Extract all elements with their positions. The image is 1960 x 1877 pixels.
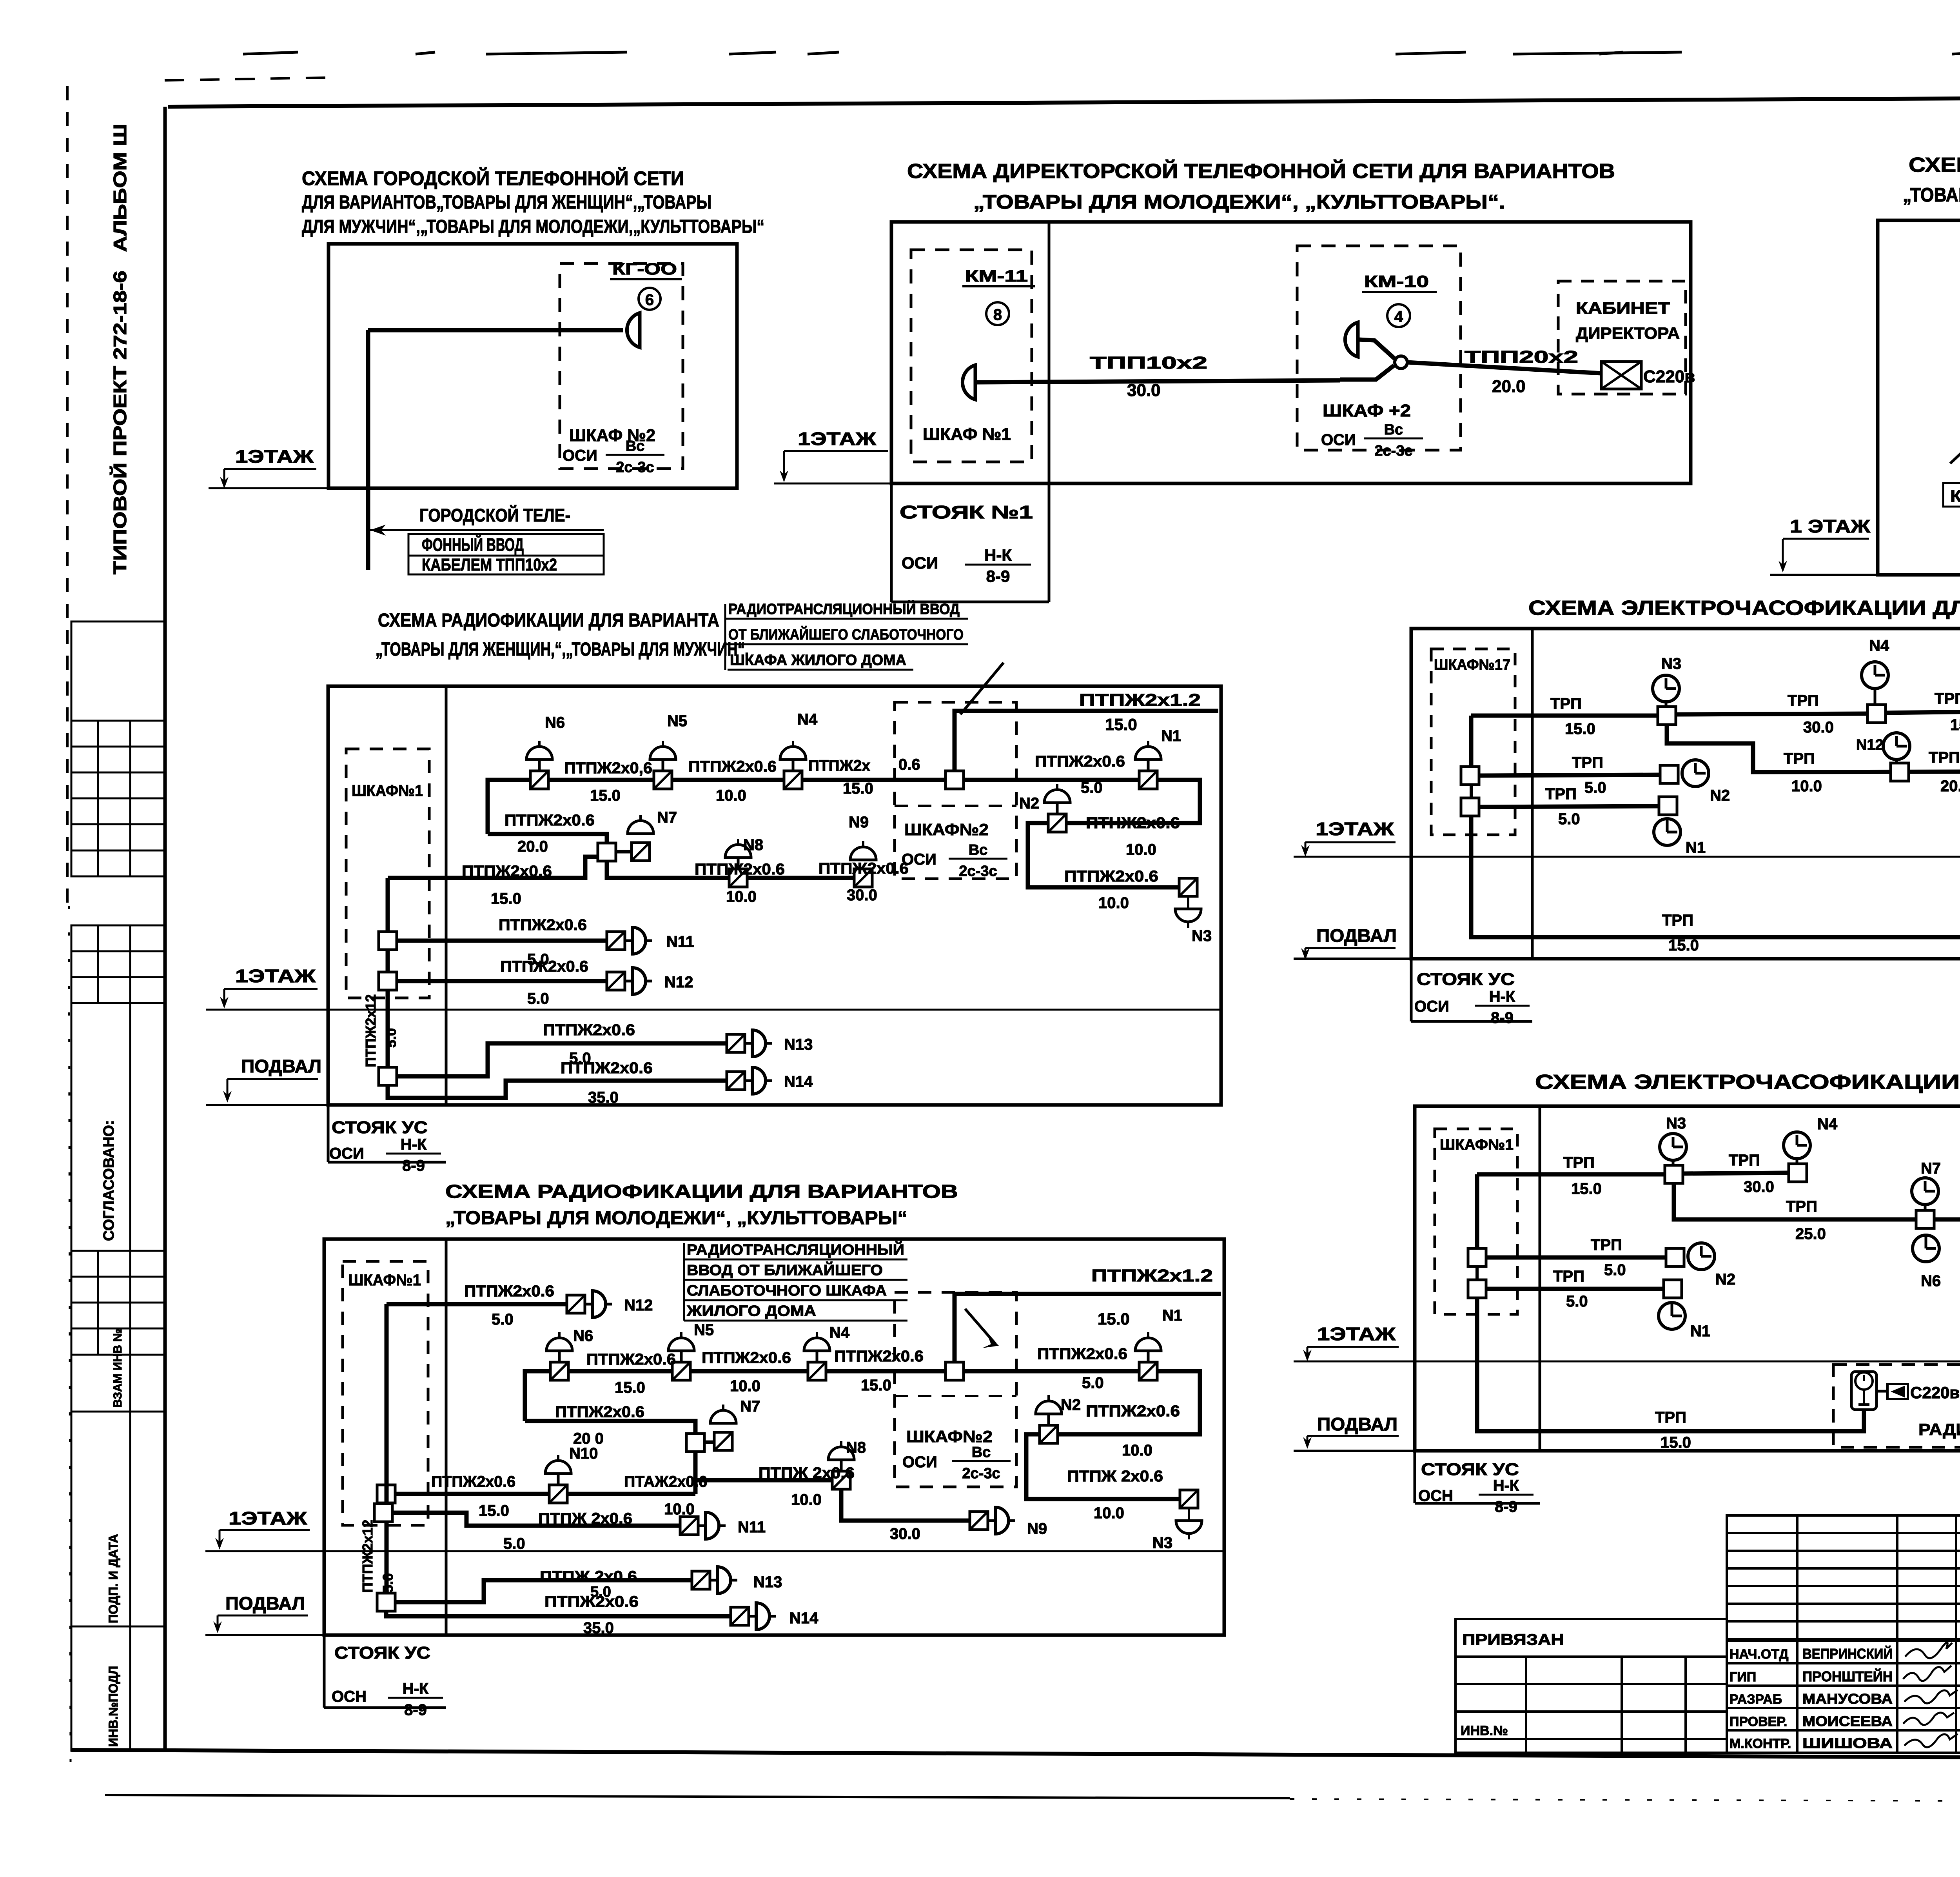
section: electric clock network (youth goods) xyxy=(1294,597,1960,1027)
svg-text:5.0: 5.0 xyxy=(380,1573,396,1593)
svg-text:ТРП: ТРП xyxy=(1553,1268,1584,1285)
attenuator N7 xyxy=(632,843,650,861)
left margin stamp table xyxy=(71,621,165,1355)
svg-text:ОСИ: ОСИ xyxy=(902,851,936,868)
wire E N4-N5 xyxy=(1886,711,1960,713)
riser column divider D xyxy=(445,686,448,1105)
svg-text:ПТПЖ 2х0.6: ПТПЖ 2х0.6 xyxy=(1067,1468,1163,1485)
svg-text:N2: N2 xyxy=(1710,787,1730,804)
axis fraction xyxy=(952,1444,1011,1482)
svg-text:N1: N1 xyxy=(1690,1323,1710,1340)
riser column divider E xyxy=(1531,629,1534,959)
riser column divider G xyxy=(1539,1106,1541,1451)
wire bus lower D xyxy=(607,861,863,878)
paper left edge xyxy=(66,86,69,906)
level mark 1ЭТАЖ xyxy=(1301,819,1396,857)
svg-text:КЕ РАДИОТОВАРОВ: КЕ РАДИОТОВАРОВ xyxy=(1950,487,1960,506)
junction box E a xyxy=(1461,767,1479,785)
svg-text:Н-К: Н-К xyxy=(1493,1477,1519,1494)
svg-text:СХЕМА РАДИОФИКАЦИИ ДЛЯ ВАРИАНТ: СХЕМА РАДИОФИКАЦИИ ДЛЯ ВАРИАНТОВ xyxy=(445,1181,958,1202)
wire N12 D xyxy=(397,979,607,983)
svg-text:N6: N6 xyxy=(545,714,565,731)
svg-text:20 0: 20 0 xyxy=(573,1430,604,1447)
wire G riser top xyxy=(1475,1174,1479,1248)
svg-text:15.0: 15.0 xyxy=(1668,937,1699,954)
svg-text:15.0: 15.0 xyxy=(861,1377,891,1394)
svg-text:10.0: 10.0 xyxy=(664,1501,695,1518)
speaker N13 F xyxy=(692,1567,737,1594)
svg-text:ПТПЖ2х1.2: ПТПЖ2х1.2 xyxy=(1091,1266,1213,1285)
wire main bus F upper xyxy=(525,1371,1200,1434)
svg-text:ШКАФ№2: ШКАФ№2 xyxy=(906,1427,993,1446)
svg-text:2с-3с: 2с-3с xyxy=(959,863,997,879)
wire ПТПЖ2х1.2 riser F xyxy=(955,1294,1221,1362)
svg-text:8-9: 8-9 xyxy=(986,567,1010,585)
svg-text:ЖИЛОГО ДОМА: ЖИЛОГО ДОМА xyxy=(686,1303,816,1319)
svg-text:ПТПЖ2х: ПТПЖ2х xyxy=(808,757,870,774)
wire junction drop F xyxy=(693,1452,698,1494)
speaker N12 F xyxy=(567,1291,612,1317)
speaker xyxy=(628,815,653,834)
svg-text:ШИШОВА: ШИШОВА xyxy=(1802,1735,1893,1751)
clock N4 E xyxy=(1862,662,1888,705)
svg-text:РАДИОУЗЕЛ: РАДИОУЗЕЛ xyxy=(1918,1420,1960,1439)
svg-text:С220в: С220в xyxy=(1910,1383,1960,1402)
svg-text:1ЭТАЖ: 1ЭТАЖ xyxy=(235,966,316,986)
svg-text:СТОЯК УС: СТОЯК УС xyxy=(332,1118,428,1137)
svg-text:КМ-11: КМ-11 xyxy=(965,267,1028,285)
svg-text:N2: N2 xyxy=(1061,1396,1081,1414)
power symbol G xyxy=(1877,1384,1908,1399)
wire ПТПЖ2х1.2 riser D xyxy=(955,711,1218,771)
junction box N4 E xyxy=(1867,705,1886,723)
svg-text:N2: N2 xyxy=(1715,1271,1735,1288)
cabinet dashed box E xyxy=(1431,649,1515,835)
floor line G этаж xyxy=(1294,1361,1960,1363)
svg-text:15.0: 15.0 xyxy=(615,1379,645,1396)
svg-text:N1: N1 xyxy=(1162,1307,1182,1324)
junction box N1 G xyxy=(1664,1280,1682,1298)
clock N4 G xyxy=(1784,1132,1810,1164)
svg-text:5.0: 5.0 xyxy=(1082,1374,1104,1392)
cabinet ШКАФ №1 dashed box F xyxy=(343,1261,428,1525)
speaker N1 F xyxy=(1135,1332,1161,1380)
riser column divider B xyxy=(1048,222,1051,602)
wire junction to N7 xyxy=(616,850,632,854)
svg-text:ПТПЖ2х0.6: ПТПЖ2х0.6 xyxy=(464,1283,554,1300)
svg-text:СХЕМА ГОРОДСКОЙ ТЕЛЕФОННОЙ СЕТ: СХЕМА ГОРОДСКОЙ ТЕЛЕФОННОЙ СЕТИ xyxy=(302,167,684,189)
svg-text:ПТПЖ2х0.6: ПТПЖ2х0.6 xyxy=(688,758,777,775)
svg-text:4: 4 xyxy=(1394,308,1403,325)
svg-text:15.0: 15.0 xyxy=(1105,715,1137,734)
wire ТПП10х2 xyxy=(975,380,1340,382)
svg-text:Вс: Вс xyxy=(1384,422,1403,438)
floor line A xyxy=(209,487,330,489)
svg-text:ОСИ: ОСИ xyxy=(902,1454,937,1471)
svg-text:ПТПЖ2х0.6: ПТПЖ2х0.6 xyxy=(431,1473,515,1490)
junction box N11 feed xyxy=(379,932,397,950)
section: director telephone network xyxy=(774,160,1695,602)
wire G basement feed xyxy=(1477,1298,1864,1431)
svg-text:20.0: 20.0 xyxy=(1492,377,1526,396)
svg-text:ШКАФ №1: ШКАФ №1 xyxy=(923,425,1011,444)
bottom trim line xyxy=(105,1795,1290,1798)
junction box F2 xyxy=(946,1362,964,1380)
svg-text:КГ-ОО: КГ-ОО xyxy=(612,260,677,278)
svg-text:ШКАФ +2: ШКАФ +2 xyxy=(1323,401,1411,420)
junction box N3 E xyxy=(1658,707,1676,725)
clock N7 G xyxy=(1912,1178,1938,1210)
director office dashed box xyxy=(1558,281,1686,394)
svg-text:ФОННЫЙ ВВОД: ФОННЫЙ ВВОД xyxy=(422,534,524,555)
svg-text:N7: N7 xyxy=(1921,1160,1941,1177)
axis fraction xyxy=(965,546,1031,585)
svg-text:15.0: 15.0 xyxy=(491,890,521,907)
circled 4 xyxy=(1387,304,1410,327)
junction box F1 xyxy=(686,1434,704,1452)
svg-text:ВЕПРИНСКИЙ: ВЕПРИНСКИЙ xyxy=(1802,1645,1893,1662)
svg-text:N14: N14 xyxy=(784,1073,813,1090)
level mark 1ЭТАЖ xyxy=(220,966,318,1008)
junction box N12 E xyxy=(1891,763,1909,781)
speaker N9 F xyxy=(970,1507,1015,1534)
clock N3 E xyxy=(1653,675,1679,707)
svg-text:ОСИ: ОСИ xyxy=(902,554,938,572)
svg-text:N12: N12 xyxy=(624,1297,653,1314)
room box B xyxy=(891,222,1691,483)
wire E N2 xyxy=(1479,775,1660,776)
speaker N5 xyxy=(650,741,676,789)
speaker xyxy=(710,1405,736,1423)
wire 20m loop D xyxy=(488,834,607,844)
wire junction to N7 F xyxy=(704,1441,714,1444)
svg-text:ДИРЕКТОРА: ДИРЕКТОРА xyxy=(1576,324,1680,342)
svg-text:25.0: 25.0 xyxy=(1795,1225,1826,1243)
wire bus from cabinet D xyxy=(388,857,600,878)
svg-text:ПОДВАЛ: ПОДВАЛ xyxy=(225,1593,305,1614)
frame bottom border xyxy=(71,1750,1960,1759)
room box E xyxy=(1411,629,1960,959)
riser column divider F xyxy=(445,1239,448,1635)
axis fraction xyxy=(606,438,664,476)
workshop pointer line xyxy=(1950,423,1960,463)
svg-text:N8: N8 xyxy=(743,836,763,854)
pointer to riser D xyxy=(960,663,1004,714)
svg-text:„ТОВАРЫ ДЛЯ МОЛОДЕЖИ“, „КУЛЬТТ: „ТОВАРЫ ДЛЯ МОЛОДЕЖИ“, „КУЛЬТТОВАРЫ“. xyxy=(973,191,1505,213)
wire E riser mid xyxy=(1470,785,1473,798)
floor line E подвал xyxy=(1294,958,1413,960)
wire E riser top xyxy=(1469,716,1474,767)
svg-text:30.0: 30.0 xyxy=(1127,381,1161,400)
svg-text:ПТПЖ2х0.6: ПТПЖ2х0.6 xyxy=(586,1351,676,1368)
svg-text:ПТПЖ2х0.6: ПТПЖ2х0.6 xyxy=(499,916,587,934)
svg-text:15.0: 15.0 xyxy=(590,787,621,804)
junction box N2 G xyxy=(1666,1248,1684,1266)
svg-text:ТРП: ТРП xyxy=(1786,1198,1817,1215)
svg-text:КАБЕЛЕМ ТПП10х2: КАБЕЛЕМ ТПП10х2 xyxy=(422,555,557,574)
svg-text:1ЭТАЖ: 1ЭТАЖ xyxy=(798,429,877,449)
clock N1 G xyxy=(1659,1303,1685,1329)
svg-text:6: 6 xyxy=(645,291,654,309)
svg-text:N14: N14 xyxy=(789,1610,818,1627)
wire 20m loop F xyxy=(525,1421,695,1434)
svg-text:РАДИОТРАНСЛЯЦИОННЫЙ ВВОД: РАДИОТРАНСЛЯЦИОННЫЙ ВВОД xyxy=(728,600,960,618)
svg-text:СХЕМА ЭЛЕКТРОЧАСОФИКАЦИИ ДЛЯ В: СХЕМА ЭЛЕКТРОЧАСОФИКАЦИИ ДЛЯ ВАРИАНТА „К… xyxy=(1535,1071,1960,1094)
clock N3 G xyxy=(1660,1134,1686,1165)
wire N8-N9 F xyxy=(841,1489,970,1521)
wire main bus D upper xyxy=(488,780,1200,834)
svg-text:10.0: 10.0 xyxy=(716,787,746,804)
svg-text:15.0: 15.0 xyxy=(843,780,873,797)
frame top border xyxy=(168,96,1960,107)
svg-text:ОСН: ОСН xyxy=(332,1688,367,1705)
svg-text:15.0: 15.0 xyxy=(1098,1310,1130,1328)
junction box G b xyxy=(1468,1280,1486,1298)
svg-text:1ЭТАЖ: 1ЭТАЖ xyxy=(1316,819,1394,839)
clock N12 E xyxy=(1883,733,1910,763)
svg-text:8-9: 8-9 xyxy=(404,1701,427,1719)
speaker N10 F xyxy=(545,1455,571,1503)
speaker N4 xyxy=(780,741,806,789)
cabinet КМ-10 dashed box xyxy=(1297,246,1461,450)
svg-text:ПРИВЯЗАН: ПРИВЯЗАН xyxy=(1462,1631,1564,1648)
svg-text:5.0: 5.0 xyxy=(1584,779,1606,796)
junction box N4 G xyxy=(1789,1164,1807,1182)
svg-text:ТРП: ТРП xyxy=(1784,750,1815,767)
svg-text:35.0: 35.0 xyxy=(583,1619,614,1637)
svg-text:СОГЛАСОВАНО:: СОГЛАСОВАНО: xyxy=(101,1120,117,1241)
level mark ПОДВАЛ xyxy=(213,1593,308,1633)
svg-text:30.0: 30.0 xyxy=(1744,1178,1774,1196)
svg-text:N4: N4 xyxy=(797,711,818,728)
svg-text:ПТПЖ 2х0.6: ПТПЖ 2х0.6 xyxy=(540,1568,637,1585)
svg-text:N3: N3 xyxy=(1661,655,1681,672)
title block xyxy=(1455,1515,1960,1806)
svg-text:РАЗРАБ: РАЗРАБ xyxy=(1730,1692,1782,1707)
svg-text:ПРОНШТЕЙН: ПРОНШТЕЙН xyxy=(1802,1668,1893,1684)
room box A xyxy=(328,244,737,488)
wire N14 D xyxy=(388,1081,727,1098)
svg-text:N4: N4 xyxy=(1817,1116,1838,1133)
svg-text:ТРП: ТРП xyxy=(1788,692,1819,709)
level mark 1ЭТАЖ xyxy=(215,1508,310,1550)
speaker N4 F xyxy=(804,1332,830,1380)
svg-text:N12: N12 xyxy=(1856,737,1884,753)
telephone КМ-11 xyxy=(962,365,975,400)
axis fraction xyxy=(1364,422,1423,459)
svg-text:N9: N9 xyxy=(1027,1520,1047,1537)
svg-text:5.0: 5.0 xyxy=(1081,779,1103,796)
svg-text:НАЧ.ОТД: НАЧ.ОТД xyxy=(1730,1647,1788,1662)
svg-text:Вс: Вс xyxy=(626,438,645,454)
svg-text:СХЕМА ДИРЕКТОРСКОЙ ТЕЛЕФОННОЙ: СХЕМА ДИРЕКТОРСКОЙ ТЕЛЕФОННОЙ СЕТИ ДЛЯ В… xyxy=(907,160,1615,183)
svg-text:1 ЭТАЖ: 1 ЭТАЖ xyxy=(1790,516,1870,536)
master clock device G xyxy=(1851,1372,1877,1410)
wire N14 F xyxy=(386,1611,731,1616)
clock N6 G xyxy=(1913,1235,1939,1262)
svg-text:N8: N8 xyxy=(846,1439,866,1456)
svg-text:N3: N3 xyxy=(1152,1534,1172,1552)
speaker N14 xyxy=(727,1067,772,1094)
svg-text:10.0: 10.0 xyxy=(1094,1505,1124,1522)
svg-text:ПОДП. И ДАТА: ПОДП. И ДАТА xyxy=(106,1534,120,1623)
wire G N3-N4 xyxy=(1683,1173,1789,1174)
svg-text:5.0: 5.0 xyxy=(503,1535,525,1552)
speaker N2 F xyxy=(1036,1395,1062,1443)
svg-text:СХЕМА ЭЛЕКТРОЧАСОФИКАЦИИ ДЛЯ В: СХЕМА ЭЛЕКТРОЧАСОФИКАЦИИ ДЛЯ ВАРИАНТА „Т… xyxy=(1528,597,1960,620)
paper top edge xyxy=(243,52,298,54)
привязан table xyxy=(1455,1619,1727,1753)
svg-text:10.0: 10.0 xyxy=(730,1377,760,1395)
svg-text:10.0: 10.0 xyxy=(1791,778,1822,795)
wire to N8 F xyxy=(695,1478,832,1483)
section: electric clock network (cult goods) xyxy=(1294,1071,1960,1515)
cabinet КМ-11 dashed box xyxy=(911,250,1032,462)
wire bus to cabinet F xyxy=(395,1492,695,1496)
speaker N8 F xyxy=(828,1441,854,1489)
svg-text:10.0: 10.0 xyxy=(791,1491,822,1508)
svg-text:„ТОВАРЫ ДЛЯ МОЛОДЕЖИ“, „КУЛЬТТ: „ТОВАРЫ ДЛЯ МОЛОДЕЖИ“, „КУЛЬТТОВАРЫ“. xyxy=(1903,184,1960,206)
svg-text:ТРП: ТРП xyxy=(1572,754,1603,771)
floor line G подвал xyxy=(1294,1450,1416,1452)
junction box basement F xyxy=(377,1593,395,1611)
wire to node xyxy=(1340,365,1394,380)
svg-text:ПОДВАЛ: ПОДВАЛ xyxy=(241,1056,321,1076)
svg-text:ПОДВАЛ: ПОДВАЛ xyxy=(1317,1414,1397,1434)
svg-text:ОСИ: ОСИ xyxy=(1321,431,1356,449)
svg-text:ИНВ.№ПОДЛ: ИНВ.№ПОДЛ xyxy=(106,1666,120,1747)
wire G N1 xyxy=(1486,1287,1664,1291)
svg-text:8: 8 xyxy=(993,306,1002,323)
section: television network xyxy=(1770,154,1960,575)
telephone set A xyxy=(627,313,640,347)
svg-text:2с-3с: 2с-3с xyxy=(616,459,654,476)
svg-text:N7: N7 xyxy=(657,809,677,826)
svg-text:5.0: 5.0 xyxy=(527,990,549,1007)
svg-text:N6: N6 xyxy=(1921,1272,1941,1290)
svg-text:ВЗАМ ИНВ №: ВЗАМ ИНВ № xyxy=(111,1328,124,1408)
svg-text:ОТ БЛИЖАЙШЕГО СЛАБОТОЧНОГО: ОТ БЛИЖАЙШЕГО СЛАБОТОЧНОГО xyxy=(728,625,964,643)
junction box D2 xyxy=(946,771,964,789)
speaker N2 xyxy=(1044,784,1070,832)
svg-text:5.0: 5.0 xyxy=(1604,1261,1626,1279)
clock N1 E xyxy=(1654,819,1681,845)
level mark ПОДВАЛ xyxy=(223,1056,321,1103)
junction box F3 xyxy=(377,1485,395,1503)
speaker N3 dome xyxy=(1175,909,1201,928)
svg-text:СХЕМА РАДИОФИКАЦИИ ДЛЯ ВАРИАНТ: СХЕМА РАДИОФИКАЦИИ ДЛЯ ВАРИАНТА xyxy=(378,610,719,631)
svg-text:1ЭТАЖ: 1ЭТАЖ xyxy=(235,446,314,467)
cabinet ШКАФ №2 dashed box xyxy=(560,263,683,469)
wire N11 D xyxy=(397,939,607,943)
floor line E этаж xyxy=(1294,856,1960,858)
speaker N3 stem xyxy=(1187,896,1189,909)
svg-text:N1: N1 xyxy=(1686,839,1706,856)
svg-text:Н-К: Н-К xyxy=(403,1680,429,1697)
svg-text:ПТПЖ2х12: ПТПЖ2х12 xyxy=(363,994,379,1067)
svg-text:10.0: 10.0 xyxy=(1098,894,1129,912)
svg-text:„ТОВАРЫ ДЛЯ МОЛОДЕЖИ“, „КУЛЬТТ: „ТОВАРЫ ДЛЯ МОЛОДЕЖИ“, „КУЛЬТТОВАРЫ“ xyxy=(445,1208,907,1228)
svg-text:N5: N5 xyxy=(694,1321,714,1339)
svg-text:МАНУСОВА: МАНУСОВА xyxy=(1802,1691,1893,1707)
room box G xyxy=(1415,1106,1960,1451)
svg-text:ПТПЖ 2х0.6: ПТПЖ 2х0.6 xyxy=(538,1510,632,1527)
wire city line xyxy=(368,328,623,333)
cabinet dashed box G xyxy=(1435,1129,1517,1314)
section: radio network youth/cult xyxy=(205,1181,1224,1719)
svg-text:ТРП: ТРП xyxy=(1662,912,1693,929)
svg-text:15.0: 15.0 xyxy=(479,1502,509,1519)
floor line F подвал xyxy=(205,1634,326,1636)
level mark 1ЭТАЖ xyxy=(1303,1324,1399,1361)
svg-text:Н-К: Н-К xyxy=(401,1136,427,1153)
svg-text:ТРП: ТРП xyxy=(1655,1409,1686,1426)
svg-text:N9: N9 xyxy=(849,814,869,831)
speaker N11 F xyxy=(680,1512,726,1539)
svg-text:ПТПЖ2х0.6: ПТПЖ2х0.6 xyxy=(543,1021,635,1039)
level mark 1 ЭТАЖ xyxy=(1779,516,1870,572)
speaker N3 stem F xyxy=(1188,1508,1190,1521)
floor line D подвал xyxy=(206,1104,330,1106)
svg-text:N1: N1 xyxy=(1161,727,1181,745)
node junction circle xyxy=(1395,356,1407,369)
floor line C xyxy=(1770,574,1879,576)
svg-text:ОСН: ОСН xyxy=(1418,1487,1453,1505)
speaker xyxy=(850,841,876,860)
speaker N6 F xyxy=(546,1332,572,1380)
speaker N3 dome F xyxy=(1176,1521,1202,1539)
section: city telephone network xyxy=(209,167,764,574)
svg-text:1ЭТАЖ: 1ЭТАЖ xyxy=(1317,1324,1396,1344)
svg-text:5.0: 5.0 xyxy=(1558,810,1580,828)
floor line F этаж xyxy=(205,1550,1224,1552)
telephone КМ-10 xyxy=(1345,322,1358,357)
director telephone crossed box xyxy=(1601,362,1641,389)
room box C xyxy=(1878,220,1960,575)
speaker N1 xyxy=(1135,741,1161,789)
svg-text:СЛАБОТОЧНОГО ШКАФА: СЛАБОТОЧНОГО ШКАФА xyxy=(687,1283,887,1299)
wire ТПП20х2 xyxy=(1407,362,1601,373)
wire phone to node xyxy=(1359,340,1395,359)
wire to N3 F xyxy=(1026,1434,1180,1499)
svg-text:ОСИ: ОСИ xyxy=(563,447,597,464)
speaker N12 xyxy=(607,968,652,994)
svg-text:СТОЯК №1: СТОЯК №1 xyxy=(900,502,1033,522)
svg-text:ТПП20х2: ТПП20х2 xyxy=(1465,347,1578,367)
svg-text:КМ-10: КМ-10 xyxy=(1364,272,1429,291)
pointer to riser F xyxy=(965,1309,996,1344)
svg-text:ПОДВАЛ: ПОДВАЛ xyxy=(1316,925,1397,946)
svg-text:СХЕМА ТЕЛЕВИДЕНИЯ ДЛЯ ВАРИАНТО: СХЕМА ТЕЛЕВИДЕНИЯ ДЛЯ ВАРИАНТОВ xyxy=(1909,154,1960,176)
svg-text:Н-К: Н-К xyxy=(1489,988,1515,1005)
svg-text:ОСИ: ОСИ xyxy=(1414,998,1449,1015)
room box F xyxy=(324,1239,1224,1635)
svg-text:ТРП: ТРП xyxy=(1591,1236,1622,1254)
svg-text:ПТПЖ2х0.6: ПТПЖ2х0.6 xyxy=(555,1403,644,1421)
junction box N7 G xyxy=(1916,1210,1934,1228)
svg-text:N7: N7 xyxy=(740,1398,760,1415)
svg-text:ШКАФ№17: ШКАФ№17 xyxy=(1434,657,1510,673)
wire E basement feed xyxy=(1471,816,1960,937)
svg-text:ПТПЖ2х0.6: ПТПЖ2х0.6 xyxy=(1086,1403,1180,1420)
wire G top xyxy=(1477,1172,1665,1177)
svg-text:РАДИОТРАНСЛЯЦИОННЫЙ: РАДИОТРАНСЛЯЦИОННЫЙ xyxy=(687,1241,904,1258)
axis fraction xyxy=(388,1680,443,1719)
attenuator N3 F xyxy=(1180,1490,1198,1508)
junction box N12 feed xyxy=(379,972,397,990)
svg-text:ПТПЖ2х12: ПТПЖ2х12 xyxy=(359,1520,376,1593)
level mark 1ЭТАЖ xyxy=(780,429,888,482)
